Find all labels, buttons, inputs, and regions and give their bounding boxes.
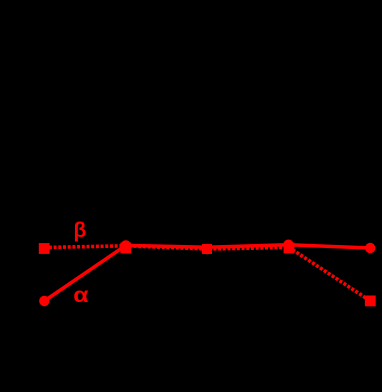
- svg-text:α: α: [73, 283, 88, 307]
- alpha circle markers: [39, 240, 375, 307]
- series alpha solid line: [44, 245, 370, 301]
- beta square markers: [39, 243, 376, 307]
- series beta dotted line: [44, 246, 370, 301]
- svg-text:β: β: [74, 219, 87, 242]
